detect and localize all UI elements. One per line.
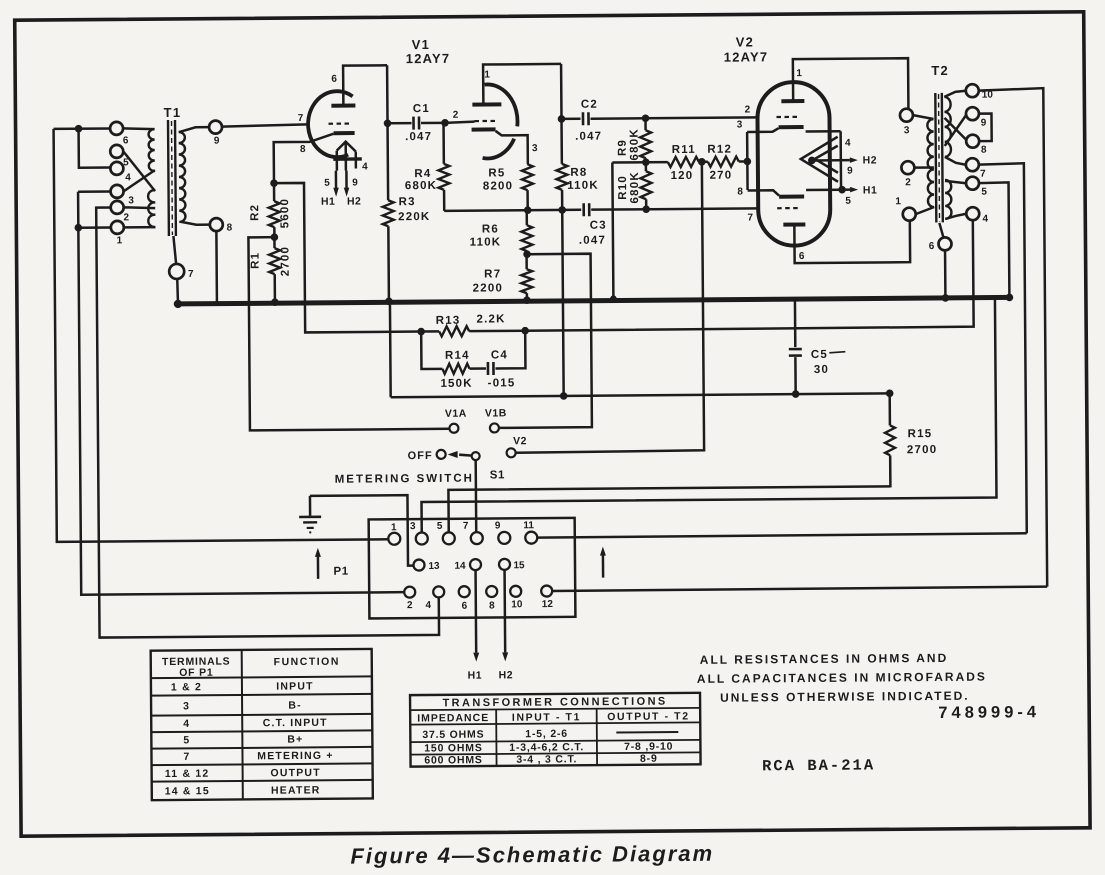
svg-text:12AY7: 12AY7 [406, 51, 451, 66]
V2 pin3-pin8 bracket [746, 132, 749, 190]
svg-text:R7: R7 [484, 268, 501, 280]
svg-text:10: 10 [511, 599, 523, 610]
resistor R15 [885, 393, 896, 487]
P1 pin 5 label [437, 521, 443, 532]
node C1 junction [384, 119, 392, 127]
C5 value 30 [814, 364, 829, 376]
T2 terminal 8 pin label [981, 145, 987, 156]
svg-text:680K: 680K [629, 171, 641, 203]
T1 terminal 7 [169, 264, 184, 279]
svg-text:13: 13 [428, 561, 440, 572]
svg-text:4: 4 [362, 161, 368, 172]
wire T2-3 to coil [913, 115, 934, 119]
svg-text:V1: V1 [412, 37, 430, 52]
R1 value 2700 [279, 246, 291, 276]
svg-text:1-3,4-6,2 C.T.: 1-3,4-6,2 C.T. [509, 741, 584, 754]
svg-text:1: 1 [117, 235, 123, 246]
svg-text:B-: B- [288, 699, 302, 711]
P1 pin 2 [404, 587, 415, 598]
wire T2-2 to coil tap [914, 166, 933, 169]
svg-text:150 OHMS: 150 OHMS [424, 742, 482, 754]
R14 value 150K [440, 378, 472, 390]
svg-text:OUTPUT - T2: OUTPUT - T2 [607, 710, 689, 723]
wire V2 terminal to R11-R12 junction [513, 162, 704, 453]
svg-text:2: 2 [745, 104, 751, 115]
V1A grid dashes [329, 122, 352, 124]
R11 ref label [672, 144, 696, 156]
P1 pin 11 [525, 532, 537, 544]
V2 plate bar pin 1 [781, 99, 804, 103]
R2 value 5600 [279, 198, 291, 228]
V2 heater chevrons [801, 137, 838, 182]
svg-text:V1B: V1B [485, 407, 507, 419]
wire R1-R2 junction to V1A metering [248, 236, 449, 431]
node R15 top [886, 390, 894, 398]
capacitor C4 [488, 331, 526, 375]
V2 H2 arrow [812, 157, 858, 163]
V1A terminal label [445, 408, 467, 420]
C1 ref label [413, 103, 430, 115]
T2 terminal 2 [901, 161, 914, 174]
transformer T2 label [931, 63, 949, 78]
wire V1B plate to C2 [560, 64, 563, 119]
R12 ref label [707, 144, 732, 156]
T1 terminal 3 pin label [128, 195, 134, 206]
svg-text:1: 1 [391, 522, 397, 533]
resistor R6 [521, 210, 532, 254]
P1 pin 9 [498, 532, 510, 544]
wire T1-3 to upper coil (crossover) [123, 170, 155, 191]
svg-text:5: 5 [981, 187, 987, 198]
resistor R13 [421, 326, 525, 337]
P1 pin 14 label [454, 561, 466, 572]
T1 terminal 4 pin label [125, 172, 131, 183]
P1 pin 1 [388, 533, 400, 545]
V1A pin 4 label [362, 161, 368, 172]
wire T2-1 to coil [916, 207, 935, 214]
T2 terminal 1 pin label [895, 196, 901, 207]
svg-text:C4: C4 [491, 349, 508, 361]
P1 pin 12 label [542, 599, 554, 610]
wire R8 below bus [562, 303, 565, 396]
R15 ref label [908, 428, 933, 440]
svg-text:OF P1: OF P1 [179, 667, 213, 679]
V1A pin 8 label [300, 144, 306, 155]
P1 pin 11 label [523, 520, 534, 531]
svg-text:5: 5 [437, 521, 443, 532]
node cathode V1A junction [270, 179, 278, 187]
svg-text:37.5 OHMS: 37.5 OHMS [422, 729, 484, 741]
svg-text:9: 9 [981, 118, 987, 129]
drawing number 748999-4 [938, 703, 1040, 722]
svg-text:3: 3 [904, 125, 910, 136]
node R9-R10 junction [642, 158, 650, 166]
T2 terminal 7 pin label [980, 169, 986, 180]
V1B plate lead pin 1 [483, 64, 561, 105]
R4 ref label [414, 168, 431, 180]
C1 value .047 [405, 131, 432, 143]
svg-text:FUNCTION: FUNCTION [274, 656, 340, 669]
node junction A1 [75, 125, 83, 133]
svg-text:C1: C1 [413, 103, 430, 115]
V1A cathode bar [334, 131, 355, 135]
svg-text:R2: R2 [249, 204, 261, 221]
V1B pin 2 label [453, 110, 459, 121]
node heater bottom tap [838, 186, 846, 194]
V1A cathode lead pin 8 [274, 134, 334, 183]
C3 ref label [590, 220, 607, 232]
T2 terminal 1 [903, 208, 916, 221]
P1 pin 10 label [511, 599, 523, 610]
capacitor C2 [561, 112, 644, 126]
R15 value 2700 [907, 444, 937, 456]
svg-text:.047: .047 [405, 131, 432, 143]
R6 ref label [482, 223, 499, 235]
T2 terminal 4 [966, 207, 979, 220]
V1A pin 6 label [331, 74, 337, 85]
terminal V1B [490, 423, 499, 432]
svg-text:5: 5 [183, 734, 190, 746]
resistor R3 [382, 123, 394, 300]
T2 terminal 5 [966, 177, 979, 190]
S1 label [490, 469, 505, 481]
V1A plate bar [331, 104, 355, 108]
svg-text:110K: 110K [567, 180, 599, 192]
wire P1 pin5 to R15 [448, 486, 890, 532]
V2 terminal label [513, 435, 527, 447]
svg-text:9: 9 [847, 166, 853, 177]
T2 terminal 2 pin label [905, 177, 911, 188]
svg-text:METERING SWITCH: METERING SWITCH [335, 473, 474, 486]
resistor R2 [268, 183, 279, 237]
wire grid return to bus [609, 162, 616, 301]
wire cathode ground run [310, 495, 413, 566]
terminal OFF [437, 450, 446, 459]
svg-text:METERING +: METERING + [257, 750, 334, 763]
wire T1-5 to lower coil (crossover) [123, 151, 155, 191]
note unless [720, 689, 970, 705]
wire coil to T2-4 [945, 214, 966, 219]
R10 ref label [617, 175, 629, 200]
P1 pin 13 [413, 560, 424, 571]
P1 pin 8 label [489, 600, 495, 611]
T1 terminal 6 pin label [123, 135, 129, 146]
transformer T1 label [164, 105, 182, 120]
node R11-R12 junction [698, 158, 706, 166]
svg-text:5: 5 [324, 178, 330, 189]
svg-text:6: 6 [929, 241, 935, 252]
node heater center tap [808, 157, 816, 165]
svg-text:7: 7 [463, 521, 469, 532]
svg-text:C3: C3 [590, 220, 607, 232]
svg-text:7: 7 [980, 169, 986, 180]
P1 pin 3 [416, 532, 428, 544]
svg-text:4: 4 [982, 214, 988, 225]
svg-text:1 & 2: 1 & 2 [171, 681, 202, 693]
svg-text:1-5, 2-6: 1-5, 2-6 [525, 728, 568, 740]
svg-text:1: 1 [796, 68, 802, 79]
svg-text:6: 6 [462, 601, 468, 612]
node R3 bottom on bus [385, 297, 393, 305]
svg-text:220K: 220K [398, 211, 430, 223]
R7 value 2200 [473, 282, 503, 294]
wire T1-2 to P1 pin4 [96, 205, 439, 638]
svg-text:14: 14 [454, 561, 466, 572]
connector P1 box [369, 518, 576, 619]
capacitor C1 [387, 116, 443, 129]
R9 ref label [617, 139, 629, 156]
svg-text:RCA BA-21A: RCA BA-21A [762, 756, 875, 775]
V1B pin 3 label [532, 143, 538, 154]
svg-text:270: 270 [710, 170, 733, 182]
T1 terminal 5 pin label [123, 157, 129, 168]
triode V1B envelope [482, 84, 518, 158]
P1 pin 12 [541, 586, 552, 597]
R3 value 220K [398, 211, 430, 223]
node R5 bottom [524, 206, 532, 214]
node T2-6 on bus [942, 294, 950, 302]
V1B cathode bar [472, 127, 496, 131]
resistor R4 [438, 123, 450, 211]
wire vertical to P1 pin2 [78, 189, 404, 595]
svg-text:P1: P1 [333, 566, 348, 578]
wire terminal 8 to bus [215, 231, 218, 301]
svg-text:7: 7 [298, 113, 304, 124]
T1 terminal 8 pin label [227, 223, 233, 234]
svg-text:UNLESS OTHERWISE INDICATED.: UNLESS OTHERWISE INDICATED. [720, 689, 970, 705]
V2 pin 6 label [799, 251, 805, 262]
svg-text:3: 3 [183, 700, 190, 712]
V2 H2 label [863, 154, 878, 166]
V2 pin 5 label [845, 196, 851, 207]
svg-text:9: 9 [214, 136, 220, 147]
resistor R14 [421, 331, 486, 374]
V2 upper cathode bar [779, 125, 804, 129]
T1 terminal 2 [111, 201, 124, 214]
svg-text:V2: V2 [736, 34, 754, 49]
wire terminal 6 to bus [944, 250, 947, 295]
T2 primary winding [927, 119, 934, 207]
svg-text:2: 2 [123, 212, 129, 223]
svg-text:R14: R14 [445, 350, 470, 362]
svg-text:680K: 680K [405, 180, 437, 192]
T2 terminal 6 pin label [929, 241, 935, 252]
wire C2 to V2 grid 2 [644, 116, 757, 119]
wire input bus top [54, 127, 110, 130]
V2 plate bar pin 6 [783, 223, 805, 227]
svg-text:R4: R4 [414, 168, 431, 180]
svg-text:R1: R1 [250, 252, 262, 269]
R5 value 8200 [483, 180, 513, 192]
T2 secondary winding lower [945, 180, 952, 219]
node R8 bottom [558, 206, 566, 214]
svg-text:4: 4 [845, 138, 851, 149]
V2 heater bracket [806, 131, 841, 190]
V2 cathode step to pin 3 bracket [747, 128, 779, 132]
note resistances [700, 651, 949, 667]
P1 pin 10 [510, 586, 521, 597]
T1 terminal 1 pin label [117, 235, 123, 246]
svg-text:8: 8 [489, 600, 495, 611]
C2 ref label [581, 99, 598, 111]
wire vertical to P1 pin1 [54, 126, 389, 542]
wire core to terminal 6 [939, 223, 943, 238]
wire T1-2 to coil tap [124, 207, 156, 208]
svg-text:R10: R10 [617, 175, 629, 200]
T1 terminal 2 pin label [123, 212, 129, 223]
T2 core [935, 93, 943, 223]
svg-text:7-8 ,9-10: 7-8 ,9-10 [624, 741, 673, 753]
node junction A2 [75, 224, 83, 232]
wire B- line [391, 393, 890, 397]
T2 terminal 10 pin label [982, 90, 994, 101]
svg-text:14 & 15: 14 & 15 [165, 785, 210, 797]
svg-text:8-9: 8-9 [640, 753, 658, 765]
wire coil to T2-10 [944, 91, 966, 97]
T2 terminal 4 pin label [982, 214, 988, 225]
svg-text:2700: 2700 [279, 246, 291, 276]
T1 terminal 7 pin label [188, 269, 194, 280]
switch S1 pivot [472, 452, 480, 460]
wire P1 pin12 output [552, 587, 1047, 591]
R9 value 680K [629, 128, 641, 160]
node bus left end [174, 300, 182, 308]
svg-text:H1: H1 [863, 184, 878, 196]
svg-text:120: 120 [671, 170, 694, 182]
svg-text:4: 4 [183, 718, 190, 730]
R8 value 110K [567, 180, 599, 192]
V1A heater lead H1 arrow [333, 171, 339, 197]
ground symbol [299, 496, 321, 533]
R13 value 2.2K [476, 313, 505, 325]
svg-text:V1A: V1A [445, 408, 467, 420]
T2 terminal 5 pin label [981, 187, 987, 198]
P1 pin 6 label [462, 601, 468, 612]
wire cathode node to metering line [274, 182, 421, 333]
P1 pin 8 [486, 586, 497, 597]
T1 terminal 8 [210, 218, 223, 231]
svg-text:T1: T1 [164, 105, 182, 120]
V1A heater housing [333, 141, 362, 170]
svg-text:11: 11 [523, 520, 534, 531]
wire T1-3 left [78, 190, 110, 193]
node R1 bottom on bus [271, 298, 279, 306]
P1 pin 14 [470, 559, 481, 570]
V1A plate lead + top wire [343, 65, 387, 105]
T1 terminal 9 pin label [214, 136, 220, 147]
svg-text:3: 3 [737, 119, 743, 130]
V2 lower cathode bar [779, 195, 804, 199]
svg-text:-015: -015 [488, 377, 516, 389]
terminal V2 [507, 448, 516, 457]
T2 secondary winding upper [944, 97, 951, 157]
V2 pin 8 label [737, 186, 743, 197]
wire coil to T2-5 [945, 181, 966, 184]
triode V1A envelope [308, 91, 353, 157]
svg-text:2: 2 [905, 177, 911, 188]
T1 terminal 6 [110, 122, 123, 135]
V2 pin 1 label [796, 68, 802, 79]
svg-text:4: 4 [425, 600, 431, 611]
wire T1-1 to coil bottom [124, 226, 155, 229]
svg-text:8: 8 [737, 186, 743, 197]
H2 label [499, 669, 514, 681]
V2 pin 9 label [847, 166, 853, 177]
P1 left arrow [315, 548, 321, 579]
wire T1-9 to V1A grid [222, 124, 308, 126]
T1 secondary winding [179, 132, 186, 222]
V1A heater lead H2 arrow [344, 171, 350, 197]
T2 terminal 7 [966, 158, 979, 171]
svg-text:V2: V2 [513, 435, 527, 447]
wire R6-R7 junction to V1B metering [498, 254, 592, 428]
V2 grid dashes pin 2 [776, 116, 800, 118]
svg-text:3-4 , 3 C.T.: 3-4 , 3 C.T. [516, 753, 577, 765]
C3 value .047 [579, 235, 606, 247]
V2 pin 7 label [747, 212, 753, 223]
tube V2 label [724, 34, 769, 64]
R8 ref label [570, 167, 587, 179]
T1 terminal 9 [209, 121, 222, 134]
V2 pin 2 label [745, 104, 751, 115]
wire grid junction stub [612, 161, 645, 164]
wire P1 pin3 to B- return [420, 300, 997, 533]
R14 ref label [445, 350, 470, 362]
wire T1 secondary top to terminal 9 [180, 127, 210, 132]
P1 ref label [333, 566, 348, 578]
resistor R10 [640, 162, 651, 209]
resistor R9 [640, 118, 651, 162]
METERING SWITCH label [335, 473, 474, 486]
note capacitances [697, 670, 987, 686]
svg-text:Figure 4—Schematic Diagram: Figure 4—Schematic Diagram [350, 841, 714, 869]
svg-text:H2: H2 [863, 154, 878, 166]
T2 terminal 10 [966, 84, 979, 97]
P1 pin 15 [499, 559, 510, 570]
wire core to terminal 7 [173, 236, 176, 264]
node C5 bottom [792, 390, 800, 398]
svg-text:12AY7: 12AY7 [724, 49, 769, 64]
wire T1-1 left [78, 226, 110, 229]
wire T2-10 to output line [979, 88, 1047, 587]
V2 H1 label [863, 184, 878, 196]
C4 value .015 [488, 377, 516, 389]
svg-text:5600: 5600 [279, 198, 291, 228]
svg-text:8200: 8200 [483, 180, 513, 192]
svg-text:3: 3 [410, 521, 416, 532]
svg-text:8: 8 [981, 145, 987, 156]
P1 pin 6 [459, 586, 470, 597]
svg-text:R12: R12 [707, 144, 732, 156]
resistor R7 [521, 254, 532, 299]
node R13 left [417, 328, 425, 336]
svg-text:HEATER: HEATER [271, 784, 321, 796]
svg-text:R5: R5 [488, 167, 505, 179]
switch S1 arm [448, 451, 473, 458]
node R1-R2 junction [271, 233, 279, 241]
svg-text:600 OHMS: 600 OHMS [424, 754, 482, 766]
T1 terminal 5 [110, 145, 123, 158]
wire T2-4 to feedback line [524, 220, 973, 331]
svg-text:TRANSFORMER CONNECTIONS: TRANSFORMER CONNECTIONS [442, 696, 667, 710]
svg-text:C.T. INPUT: C.T. INPUT [263, 717, 328, 730]
svg-text:B+: B+ [287, 733, 303, 745]
P1 pin 7 [471, 532, 483, 544]
node on B- line [560, 392, 568, 400]
P1 pin 1 label [391, 522, 397, 533]
node grid V1B junction [441, 119, 449, 127]
resistor R12 [702, 156, 748, 166]
